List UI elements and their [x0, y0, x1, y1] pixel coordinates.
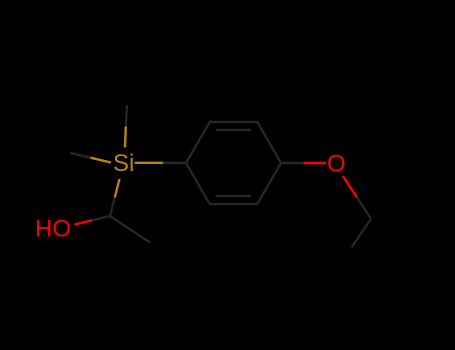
bond CH2-CH3 [352, 219, 372, 248]
svg-text:Si: Si [113, 150, 134, 177]
bond Si-CH3 left (carbon half) [70, 153, 90, 158]
benzene ring [186, 122, 281, 204]
bond ring-O (oxygen half) [304, 162, 327, 164]
ring double bond top inner [216, 129, 252, 131]
bond Si-CH3 top (carbon half) [126, 105, 127, 127]
bond Si-CH3 left (Si half) [90, 158, 110, 163]
bond O-CH2 (oxygen half) [343, 176, 357, 197]
ring double bond bottom inner [216, 195, 252, 197]
bond O-CH2 (carbon half) [357, 197, 371, 218]
svg-text:O: O [327, 150, 346, 177]
bond Si-ring (carbon half) [163, 162, 186, 165]
bond Si-ring (Si half) [135, 162, 164, 164]
bond Si-C1 (carbon half) [110, 198, 115, 217]
bond C1-CH3 [110, 216, 150, 243]
svg-text:HO: HO [35, 215, 71, 242]
bond Si-CH3 top (Si half) [124, 127, 127, 148]
bond C1-OH (carbon half) [92, 216, 110, 220]
bond ring-O (carbon half) [281, 162, 304, 164]
bond Si-C1 (Si half) [115, 179, 120, 198]
bond C1-OH (oxygen half) [75, 220, 93, 224]
